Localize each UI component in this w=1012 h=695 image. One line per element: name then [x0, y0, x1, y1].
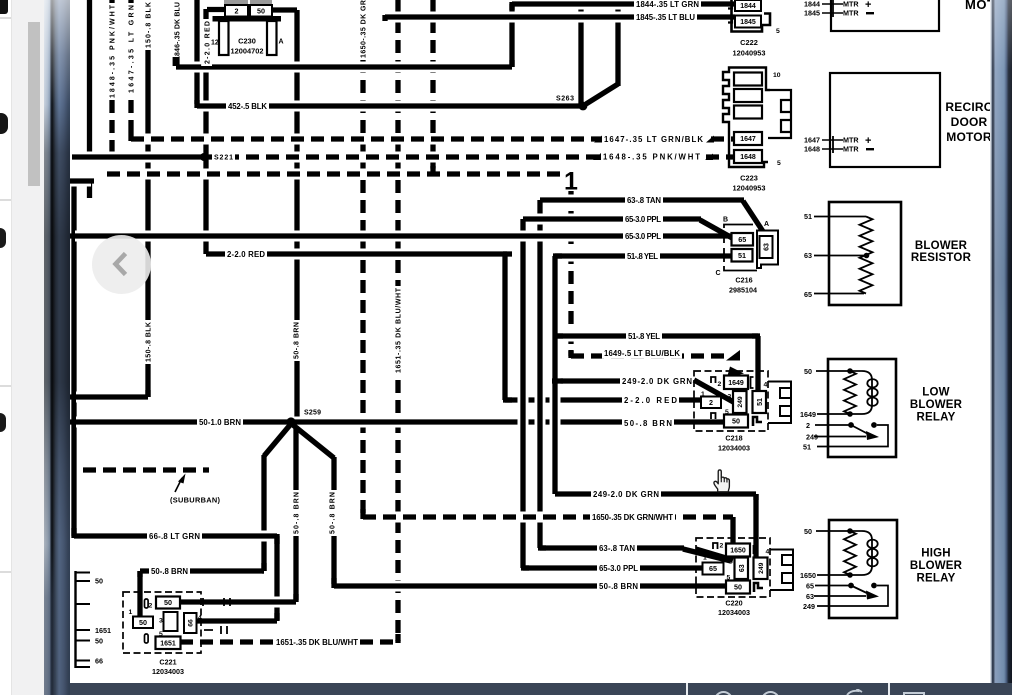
wire high blower relay coil top to coil — [850, 530, 862, 532]
svg-text:4: 4 — [198, 615, 202, 622]
previous page chevron — [92, 235, 151, 294]
wire high blower relay coil top lead — [816, 530, 850, 532]
corner patch 571/356 — [568, 350, 573, 358]
connector left-edge tick 66 — [75, 660, 91, 662]
motor terminal bar recirc — [832, 136, 834, 153]
wire 63 TAN row to C220 — [540, 543, 684, 554]
connector left-edge spine — [74, 571, 76, 668]
svg-text:1650-.35 DK GRN/WHT: 1650-.35 DK GRN/WHT — [592, 513, 673, 522]
svg-text:65: 65 — [709, 564, 717, 573]
svg-text:249: 249 — [758, 562, 765, 574]
svg-text:MTR: MTR — [843, 136, 859, 145]
connector C221 cavity tick upper — [145, 599, 149, 608]
label (SUBURBAN) — [170, 496, 221, 505]
connector left-edge tick end — [75, 666, 91, 668]
svg-text:1: 1 — [564, 168, 578, 196]
connector C223 cavity 1 — [734, 73, 762, 86]
connector C230 shell — [213, 0, 282, 55]
connector C218 pin box 1649 — [724, 376, 748, 390]
svg-text:65: 65 — [804, 290, 812, 299]
arrow SUBURBAN leader — [175, 478, 182, 492]
high blower relay coil inductor — [862, 531, 872, 575]
splice S263 — [579, 102, 588, 111]
label 2-2.0 RED right — [622, 394, 679, 406]
high blower relay switch arm — [851, 586, 871, 596]
label 51-.8 YEL upper — [625, 250, 660, 262]
wire left edge stub y181 — [66, 176, 94, 187]
label 1651-.35 DK BLU/WHT — [392, 286, 403, 375]
label 50-.8 BRN C218 — [622, 417, 674, 429]
wire at x89 vertical — [87, 0, 92, 157]
wire high blower relay no lead routed — [817, 586, 888, 607]
svg-text:1647-.35 LT GRN/BLK: 1647-.35 LT GRN/BLK — [604, 135, 703, 144]
wire 249 DK GRN row to C218 — [555, 376, 694, 387]
sidebar separator 3 — [0, 385, 11, 387]
wedge 1648 right — [705, 154, 713, 161]
wire riser x618 — [615, 0, 620, 86]
corner patch 512/4 — [509, 2, 514, 10]
label 50-.8 BRN x296 — [290, 490, 301, 536]
svg-text:C216: C216 — [735, 276, 752, 285]
corner patch 758/336 — [752, 333, 760, 338]
svg-text:50: 50 — [257, 6, 265, 15]
svg-text:249: 249 — [803, 602, 815, 611]
wire 249 DK GRN row to C220 — [555, 489, 756, 500]
wire low blower relay coil bottom lead — [817, 413, 862, 415]
toolbar icon circle 2 (zoom) — [761, 691, 780, 695]
svg-text:MTR: MTR — [843, 0, 859, 9]
svg-text:249-2.0 DK GRN: 249-2.0 DK GRN — [593, 490, 659, 499]
connector C218 pin box 51 — [753, 391, 767, 413]
svg-text:+: + — [865, 0, 871, 11]
svg-text:2: 2 — [806, 421, 810, 430]
wire low blower relay common lead — [815, 424, 851, 426]
svg-text:63: 63 — [806, 592, 814, 601]
wire 51/249 drop x555 — [550, 256, 561, 494]
toolbar icon arrow (share) — [845, 689, 863, 695]
connector C220 outline — [696, 538, 770, 597]
svg-text:+: + — [865, 135, 871, 147]
svg-text:B: B — [723, 217, 728, 224]
corner patch 148/397 — [145, 390, 150, 397]
label 249-2.0 DK GRN lower — [591, 488, 661, 500]
svg-text:63-.8 TAN: 63-.8 TAN — [627, 196, 661, 205]
arrow SUBURBAN head — [178, 474, 186, 484]
resistor element zigzag — [860, 217, 873, 294]
wire 50 BRN drop x296 — [293, 426, 298, 600]
wire 150 BLK vertical — [145, 0, 150, 397]
svg-text:1648: 1648 — [740, 154, 756, 161]
label 50-.8 BRN top — [290, 320, 301, 361]
svg-text:65: 65 — [806, 582, 814, 591]
label 66-.8 LT GRN — [147, 530, 202, 542]
wire resistor 51 lead — [814, 216, 866, 218]
svg-text:A: A — [764, 221, 769, 228]
wire row to S221 — [72, 152, 206, 163]
svg-text:1649: 1649 — [728, 380, 744, 387]
connector C220 pin box 63 — [735, 558, 749, 580]
wire end cap x176 — [173, 57, 180, 66]
connector C222 pin box 1844 — [735, 0, 761, 11]
svg-text:1: 1 — [701, 391, 705, 398]
connector C218 cavity mark pi lower — [711, 413, 716, 419]
label 50-.8 BRN C220 — [597, 580, 640, 592]
svg-text:3: 3 — [729, 559, 733, 566]
wire 50 BRN long row — [70, 417, 725, 428]
svg-text:1: 1 — [703, 555, 707, 562]
wire C230 pin50 stub — [271, 7, 297, 12]
wire 1848 PNK/WHT vertical — [109, 0, 114, 157]
svg-text:1846-.35 DK BLU: 1846-.35 DK BLU — [175, 2, 182, 60]
svg-text:12034003: 12034003 — [718, 608, 750, 617]
svg-text:1845: 1845 — [740, 19, 756, 26]
svg-text:12040953: 12040953 — [733, 49, 766, 58]
connector C218 pin box 50 — [724, 415, 748, 428]
svg-text:50: 50 — [164, 598, 172, 607]
label 50-.8 BRN x331 — [326, 490, 337, 536]
corner patch 556/336 — [553, 333, 563, 338]
wire recirc 1647 lead — [822, 139, 843, 141]
wire 50 BRN drop x334 — [331, 457, 336, 584]
connector C220 pin box 50 — [726, 581, 750, 594]
label 1649-.5 LT BLU/BLK — [602, 347, 682, 359]
label 1844-.35 LT GRN — [634, 0, 701, 9]
sidebar separator 1 — [0, 17, 11, 19]
corner patch 264/571 — [262, 568, 264, 573]
svg-text:63: 63 — [764, 243, 771, 251]
connector C220 cavity mark pi — [713, 543, 718, 549]
connector C223 top edge — [737, 68, 770, 91]
corner patch 140/571 — [137, 571, 142, 577]
svg-text:65-3.0 PPL: 65-3.0 PPL — [625, 215, 661, 224]
svg-text:50-.8 BRN: 50-.8 BRN — [151, 567, 188, 576]
wire row y67 from C230 — [176, 62, 512, 73]
sidebar thumbnail fragment 1 — [0, 0, 8, 14]
svg-text:1651-.35 DK BLU/WHT: 1651-.35 DK BLU/WHT — [276, 638, 358, 647]
connector C220 pin box 249 — [754, 558, 768, 580]
connector C222 cavity wedge 1845 — [725, 17, 732, 23]
wire 1649 LT BLU/BLK dashed row — [571, 351, 726, 362]
toolbar icon rectangle (fullscreen) — [903, 692, 925, 695]
wire ground riser x581 — [578, 4, 583, 104]
viewer left sidebar (page thumbnails strip) — [0, 0, 12, 695]
corner patch 433/174 — [430, 166, 435, 176]
corner patch 505/400 — [503, 397, 512, 402]
wire 66 row to C221 pin4 — [195, 616, 277, 627]
svg-text:51: 51 — [804, 212, 812, 221]
label 150-.8 BLK mid — [142, 320, 153, 364]
wedge 1647 right — [706, 136, 714, 143]
label 50-.8 BRN C221 — [149, 565, 190, 577]
toolbar divider 2 — [888, 683, 890, 695]
wire 63 TAN diagonal into C220 — [683, 549, 731, 561]
junction low blower relay coil top — [847, 368, 853, 374]
viewer scroll gutter — [12, 0, 44, 695]
svg-text:66: 66 — [188, 619, 195, 627]
junction high blower relay fixed contact — [871, 583, 877, 589]
wire 66 drop x277 — [274, 536, 279, 620]
label 1648-.35 PNK/WHT — [601, 150, 702, 162]
svg-text:MOTOR: MOTOR — [946, 130, 992, 144]
svg-text:4: 4 — [764, 382, 768, 389]
wire resistor 63 lead — [814, 255, 866, 257]
label 65-3.0 PPL mid — [623, 230, 663, 242]
svg-text:C218: C218 — [725, 434, 742, 443]
sidebar separator 4 — [0, 571, 11, 573]
corner patch 296/602 — [293, 594, 298, 602]
wire 249 diagonal inside C218 — [694, 380, 737, 404]
wire 249 arrowhead C218 — [727, 367, 744, 378]
low blower relay box — [828, 359, 896, 457]
svg-text:51: 51 — [757, 398, 764, 406]
svg-text:249-2.0 DK GRN: 249-2.0 DK GRN — [622, 377, 692, 386]
svg-text:2: 2 — [720, 543, 724, 550]
svg-text:5: 5 — [159, 631, 163, 638]
svg-text:DOOR: DOOR — [951, 115, 988, 129]
svg-text:1844: 1844 — [804, 0, 820, 9]
corner patch 512/67 — [509, 60, 514, 67]
svg-text:1647: 1647 — [804, 136, 820, 145]
minus sign recirc — [866, 148, 874, 150]
svg-text:12034003: 12034003 — [718, 444, 750, 453]
svg-text:51-.8 YEL: 51-.8 YEL — [627, 252, 658, 261]
svg-text:A: A — [279, 39, 284, 46]
wire dashed row y174 — [107, 169, 567, 180]
connector left-edge tick — [75, 572, 91, 574]
sidebar thumbnail fragment 2 — [0, 113, 8, 134]
svg-text:MTR: MTR — [843, 145, 859, 154]
wire 1845 LT BLU row — [385, 12, 735, 23]
svg-text:50-.8 BRN: 50-.8 BRN — [294, 322, 301, 359]
mouse cursor (hand pointer) — [710, 467, 734, 494]
svg-text:2-2.0 RED: 2-2.0 RED — [227, 250, 265, 259]
wire 50 BRN row to C220 pin50 — [334, 581, 727, 592]
wire 1650 stub into C220 — [730, 517, 735, 544]
scanned page left spine edge — [44, 0, 70, 695]
connector C218 pin box 2 — [701, 397, 721, 409]
svg-text:3: 3 — [728, 394, 732, 401]
wire 51 YEL drop into C218 — [753, 336, 764, 392]
svg-text:C221: C221 — [159, 658, 176, 667]
wire 1650 DK GRN/WHT dashed row — [363, 512, 733, 523]
minus sign top motor — [866, 12, 874, 14]
wire motor 1845 lead — [822, 12, 843, 14]
wire 2 RED row to C218 — [505, 395, 701, 406]
svg-text:C223: C223 — [740, 174, 758, 183]
svg-text:1650: 1650 — [800, 571, 816, 580]
wire 51 YEL row y336 — [556, 331, 758, 342]
label 65-3.0 PPL upper — [623, 213, 663, 225]
connector C216 pin box 63 — [760, 236, 773, 258]
label S263 — [554, 92, 576, 103]
previous page button — [92, 235, 151, 294]
svg-text:RELAY: RELAY — [917, 412, 956, 424]
wire diagonal to S263 — [586, 84, 618, 104]
wire 65 PPL row to C220 — [523, 563, 703, 574]
wire SUBURBAN dashed row — [83, 465, 209, 476]
svg-text:5: 5 — [727, 575, 731, 582]
svg-text:1844-.35 LT GRN: 1844-.35 LT GRN — [636, 0, 699, 9]
wire 1649 end wedge — [726, 350, 740, 361]
svg-text:1651: 1651 — [95, 626, 111, 635]
wire low blower relay coil top to coil — [850, 370, 862, 372]
connector C222 pin box 1845 — [735, 16, 761, 28]
corner patch 555/381 — [552, 378, 563, 383]
junction high blower relay common contact — [848, 583, 854, 589]
svg-text:1648-.35 PNK/WHT: 1648-.35 PNK/WHT — [603, 152, 700, 161]
svg-text:1647-.35 LT GRN: 1647-.35 LT GRN — [129, 5, 136, 93]
label 249-2.0 DK GRN — [620, 375, 694, 387]
svg-text:249: 249 — [737, 396, 744, 408]
svg-text:1845: 1845 — [804, 9, 820, 18]
corner patch 540/548 — [538, 545, 546, 550]
corner patch 131/139 — [128, 133, 133, 141]
svg-text:1647: 1647 — [740, 136, 756, 143]
wire 1648 PNK/WHT dashed row — [206, 152, 734, 163]
low blower relay coil resistor — [844, 371, 856, 414]
connector C221 pin box 1651 — [156, 637, 181, 650]
label S221 — [212, 151, 235, 162]
connector C230 pin box 2 — [225, 5, 248, 17]
svg-text:65-3.0 PPL: 65-3.0 PPL — [599, 564, 638, 573]
corner patch 277/536 — [274, 534, 279, 544]
viewer bottom toolbar — [70, 683, 1012, 695]
wire high blower relay coil bottom lead — [817, 574, 862, 576]
wire 1651 DK BLU/WHT dashed row — [180, 637, 398, 648]
svg-text:150-.8 BLK: 150-.8 BLK — [146, 2, 153, 48]
wire 50 BRN drop x140 — [137, 571, 142, 617]
connector C221 cavity tick lower — [145, 634, 149, 643]
corner patch 756/494 — [753, 494, 758, 500]
wire resistor 65 lead — [814, 293, 864, 295]
wedge 1647 left — [594, 136, 602, 143]
wire dashed vertical x433 — [430, 0, 435, 172]
wire high blower relay nc lead — [814, 595, 866, 597]
wire low blower relay no lead routed — [817, 425, 888, 447]
wire low blower relay coil top lead — [816, 370, 850, 372]
svg-text:BLOWER: BLOWER — [915, 240, 968, 252]
connector C223 shell — [723, 68, 768, 168]
svg-text:5: 5 — [725, 409, 729, 416]
corner patch 197/106 — [194, 100, 199, 108]
svg-text:51: 51 — [738, 251, 746, 260]
svg-text:12: 12 — [211, 40, 219, 47]
connector left-edge tick 50 — [75, 580, 91, 582]
connector C220 cavity mark L — [754, 583, 763, 592]
corner patch 398/642 — [395, 634, 400, 643]
wire 249 drop into C220 — [753, 494, 758, 558]
label 63-.8 TAN upper — [625, 194, 663, 206]
svg-text:2: 2 — [718, 381, 722, 388]
svg-text:452-.5 BLK: 452-.5 BLK — [228, 102, 267, 111]
wire 452 BLK row to S263 — [197, 101, 583, 112]
svg-text:1651-.35 DK BLU/WHT: 1651-.35 DK BLU/WHT — [396, 287, 403, 373]
label S259 — [304, 410, 321, 417]
wire 1844 LT GRN row — [512, 0, 735, 10]
svg-text:C: C — [716, 270, 721, 277]
label 452-.5 BLK — [226, 100, 269, 112]
svg-text:1651: 1651 — [160, 640, 176, 647]
connector C218 cavity mark L — [753, 417, 762, 426]
low blower relay coil inductor — [862, 371, 872, 414]
svg-text:2: 2 — [709, 398, 713, 407]
wire high blower relay common lead — [815, 585, 851, 587]
connector C216 outline — [724, 225, 757, 271]
wire left stub vertical x89 — [87, 181, 92, 198]
svg-text:4: 4 — [766, 549, 770, 556]
svg-text:12040953: 12040953 — [733, 184, 766, 193]
wire 1647 LT GRN/BLK dashed row — [131, 134, 734, 145]
corner patch 523/568 — [521, 565, 529, 570]
connector C218 cavity mark bracket — [751, 377, 754, 388]
wire 1650 DK GRN vertical — [360, 0, 365, 517]
label 2-2.0 RED vertical — [201, 19, 212, 66]
connector C221 pin box 50 left — [133, 617, 153, 629]
connector C221 outline — [123, 592, 201, 653]
sidebar thumbnail fragment 3 — [0, 228, 6, 248]
recirc door motor box — [830, 73, 940, 167]
wedge 1648 left — [593, 153, 601, 160]
connector C218 outline — [694, 371, 768, 431]
svg-text:1649: 1649 — [800, 410, 816, 419]
connector C218 right shell — [768, 382, 791, 424]
svg-text:50: 50 — [804, 527, 812, 536]
connector C220 cavity tick — [753, 545, 755, 554]
wire recirc 1648 lead — [822, 148, 843, 150]
connector C220 pin box 1650 — [726, 544, 750, 557]
svg-text:S263: S263 — [556, 96, 574, 103]
corner patch 334/586 — [331, 578, 336, 588]
wire low blower relay nc lead — [814, 436, 866, 438]
high blower relay box — [829, 520, 897, 618]
wire motor 1844 lead — [822, 3, 843, 5]
svg-text:1844: 1844 — [740, 3, 756, 10]
wire 2-2.0 RED / 452 vertical — [203, 9, 208, 254]
wire S259 right diagonal — [293, 425, 334, 458]
svg-text:50-.8 BRN: 50-.8 BRN — [294, 492, 301, 534]
label 1848-.35 PNK/WHT — [106, 3, 117, 100]
svg-text:5: 5 — [777, 160, 781, 167]
svg-text:BLOWER: BLOWER — [910, 560, 963, 572]
connector C230 pin box 50 — [250, 5, 272, 17]
svg-text:66-.8 LT GRN: 66-.8 LT GRN — [149, 532, 200, 541]
junction low blower relay coil bottom — [847, 411, 853, 417]
svg-text:50-.8 BRN: 50-.8 BRN — [330, 492, 337, 534]
label 1846-.35 DK BLU — [175, 2, 182, 60]
svg-text:50: 50 — [732, 417, 740, 426]
resistor tap junction — [864, 253, 870, 259]
wire 50 vertical from C230 — [294, 10, 299, 422]
wire 63 TAN diagonal into C216 — [743, 201, 766, 236]
svg-text:S221: S221 — [214, 155, 233, 162]
wire 66 LT GRN row — [74, 531, 277, 542]
svg-text:RECIRC: RECIRC — [945, 100, 992, 114]
svg-text:63: 63 — [739, 564, 746, 572]
svg-text:HIGH: HIGH — [921, 548, 951, 560]
wire 65 PPL row to C216 B — [523, 214, 701, 225]
toolbar icon circle 1 (zoom) — [714, 691, 733, 695]
svg-text:50: 50 — [139, 618, 147, 627]
wire 1649 dashed drop x571 — [566, 191, 577, 356]
sidebar thumbnail fragment 4 — [0, 413, 6, 432]
high blower relay switch arrowhead — [866, 591, 879, 600]
svg-text:C230: C230 — [238, 37, 256, 46]
svg-text:65-3.0 PPL: 65-3.0 PPL — [625, 232, 661, 241]
svg-text:1648: 1648 — [804, 145, 820, 154]
connector C216 pin box 65 — [732, 233, 754, 246]
wire 1844 riser x512 — [509, 4, 514, 67]
label 2-2.0 RED left — [225, 248, 267, 260]
